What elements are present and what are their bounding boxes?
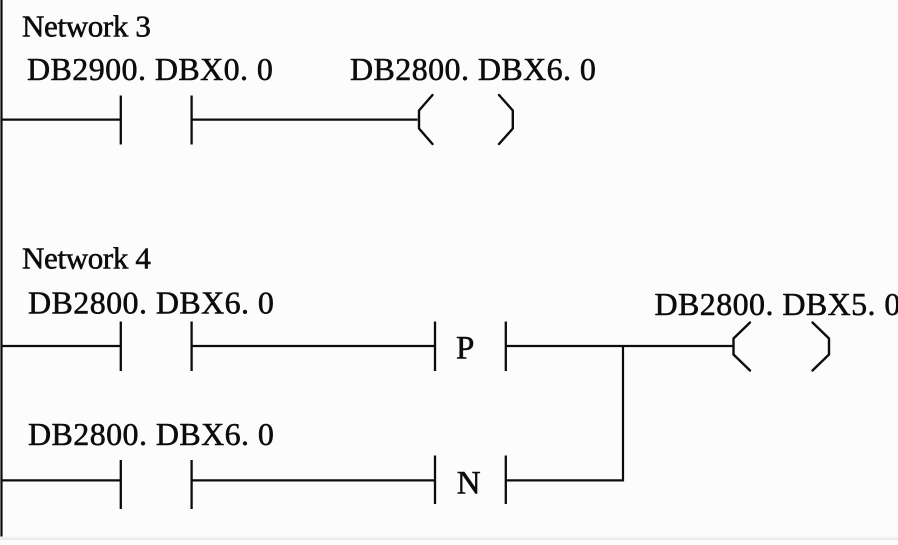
wire: contact K4.1 to P contact xyxy=(192,345,435,347)
svg-text:P: P xyxy=(456,330,474,366)
coil Q4 (DB2800.DBX5.0) xyxy=(734,323,830,371)
wire: rail to contact K3.1 xyxy=(2,118,121,120)
wire: contact K4.2 to N contact xyxy=(192,479,435,481)
svg-text:Network 3: Network 3 xyxy=(22,9,151,44)
wire: rail to contact K4.1 xyxy=(2,345,121,347)
contact K3.1 (NO contact DB2900.DBX0.0) xyxy=(121,96,192,145)
svg-text:DB2800. DBX6. 0: DB2800. DBX6. 0 xyxy=(28,416,274,452)
wire: N contact to branch junction xyxy=(506,479,624,481)
wire: rail to contact K4.2 xyxy=(2,479,121,481)
contact K4.1 (NO contact DB2800.DBX6.0) xyxy=(121,322,192,372)
coil Q3 (DB2800.DBX6.0) xyxy=(419,95,513,144)
svg-text:DB2900. DBX0. 0: DB2900. DBX0. 0 xyxy=(27,51,273,87)
svg-text:DB2800. DBX6. 0: DB2800. DBX6. 0 xyxy=(350,51,596,87)
wire: branch junction vertical (rung 2 to rung 3) xyxy=(622,345,624,481)
wire: contact K3.1 to coil Q3 xyxy=(192,118,418,120)
P contact (positive edge) bars xyxy=(435,322,506,372)
svg-text:DB2800. DBX6. 0: DB2800. DBX6. 0 xyxy=(28,285,274,321)
svg-text:N: N xyxy=(457,466,481,502)
contact K4.2 (NO contact DB2800.DBX6.0) xyxy=(121,460,192,509)
svg-text:Network 4: Network 4 xyxy=(22,240,151,275)
bottom window edge xyxy=(0,537,898,539)
left power rail xyxy=(0,0,2,539)
svg-text:DB2800. DBX5. 0: DB2800. DBX5. 0 xyxy=(655,286,898,322)
N contact (negative edge) bars xyxy=(435,456,506,505)
wire: P contact to coil Q4 xyxy=(506,345,733,347)
